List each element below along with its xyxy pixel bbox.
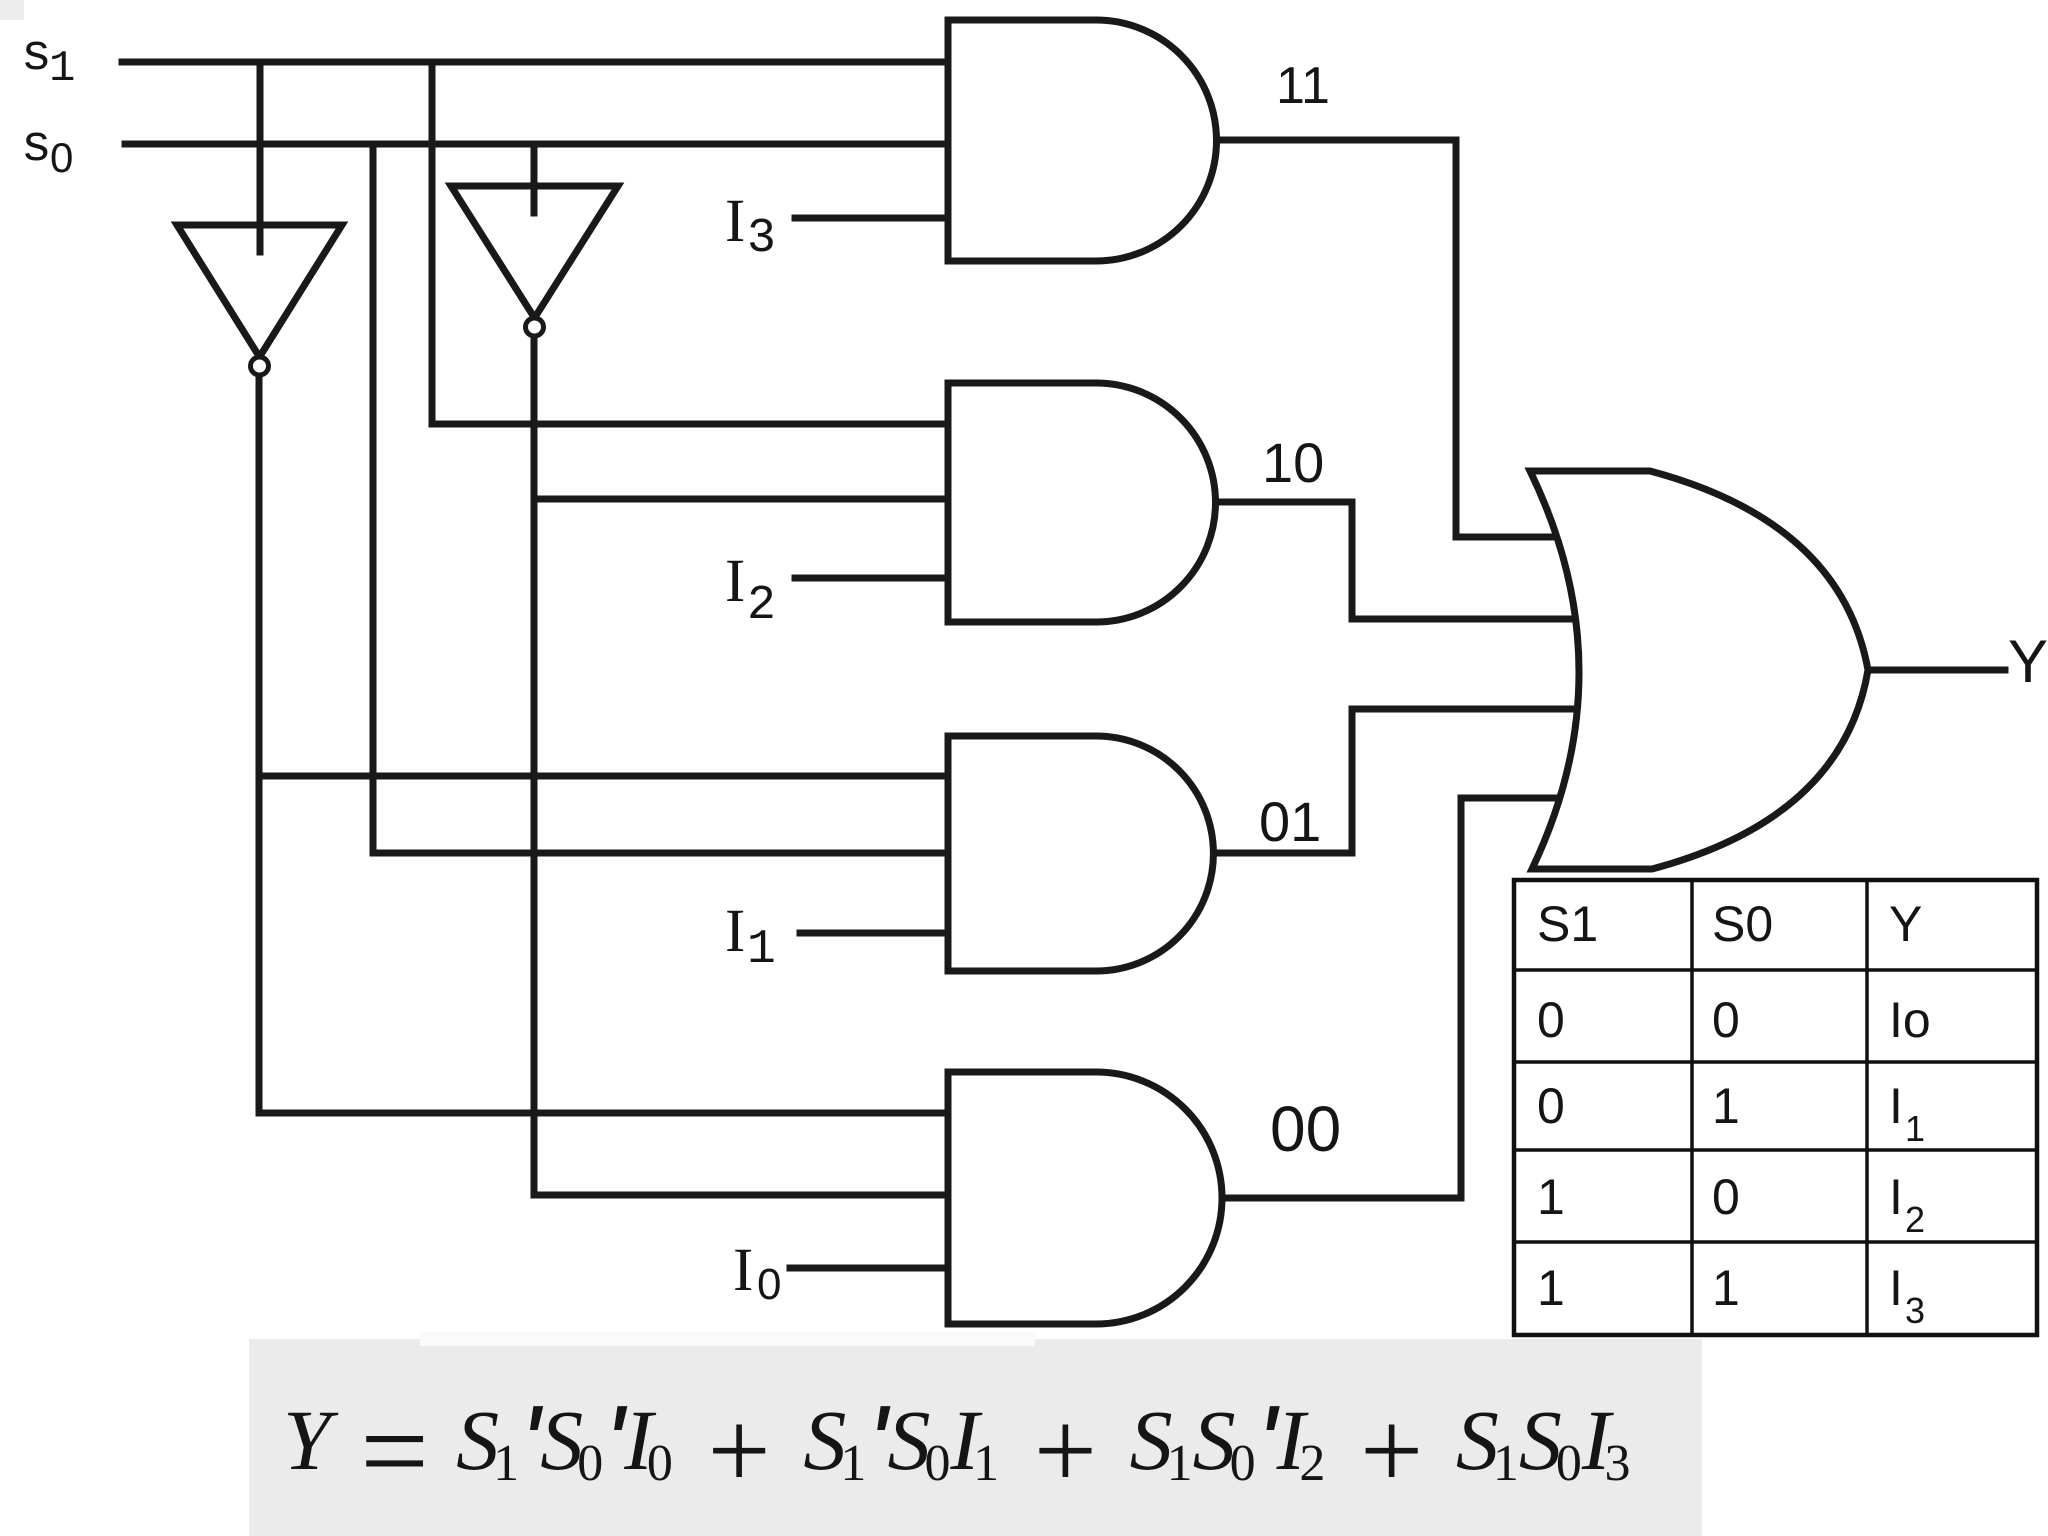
wire input I3 (795, 215, 951, 222)
wire s1 branch to inverter U1 (257, 62, 264, 252)
wire gate G01 output to OR (minterm 01) (1210, 709, 1580, 853)
wire gate G10 output to OR (minterm 10) (1210, 502, 1580, 619)
wire output Y (1868, 667, 2005, 674)
svg-text:I: I (733, 1237, 753, 1304)
equation background block (249, 1339, 1702, 1536)
svg-text:I: I (1889, 1260, 1903, 1316)
wire s0 bus (125, 141, 951, 148)
svg-text:01: 01 (1259, 790, 1321, 853)
svg-text:0: 0 (1712, 1169, 1740, 1225)
svg-text:Y: Y (1889, 896, 1922, 952)
wire net s0' to gate G10 (534, 496, 951, 503)
AND gate G01 (948, 736, 1213, 971)
svg-text:S0: S0 (1712, 896, 1773, 952)
svg-text:I: I (1889, 1169, 1903, 1225)
label s0 (21, 119, 73, 181)
AND gate G00 (948, 1072, 1222, 1324)
inverter U1 (s1 -> s1') (177, 225, 342, 375)
svg-text:1: 1 (747, 923, 776, 977)
svg-text:I: I (1889, 1078, 1903, 1134)
AND gate G10 (948, 383, 1216, 622)
label I0 (733, 1237, 781, 1309)
svg-text:I: I (725, 188, 745, 255)
svg-text:1: 1 (1712, 1078, 1740, 1134)
wire s1 bus (122, 59, 951, 66)
AND gate G11 (948, 20, 1217, 261)
truth table (1514, 880, 2037, 1335)
wire net s0' to gate G00 (534, 1192, 951, 1199)
svg-text:1: 1 (1537, 1169, 1565, 1225)
svg-text:3: 3 (747, 212, 776, 266)
truth table header row S1 S0 Y (1537, 896, 1931, 1331)
svg-text:I: I (725, 898, 745, 965)
svg-text:s: s (21, 119, 52, 176)
svg-text:1: 1 (1537, 1260, 1565, 1316)
svg-text:Io: Io (1889, 992, 1931, 1048)
svg-text:s: s (21, 28, 52, 85)
svg-text:1: 1 (1905, 1108, 1925, 1149)
wire net s1' to gate G00 (259, 1110, 951, 1117)
wire net s1' to gate G01 (259, 773, 951, 780)
wire net s0' vertical from U2 bubble (531, 336, 538, 1195)
svg-text:S1: S1 (1537, 896, 1598, 952)
wire s0 branch to inverter U2 (531, 144, 538, 213)
wire input I1 (800, 930, 951, 937)
wire net s1' vertical from U1 bubble (256, 375, 263, 1113)
svg-text:1: 1 (49, 44, 75, 94)
wire input I2 (795, 575, 951, 582)
svg-text:2: 2 (1905, 1199, 1925, 1240)
svg-text:10: 10 (1262, 431, 1324, 494)
label I2 (725, 548, 776, 633)
svg-text:0: 0 (1537, 1078, 1565, 1134)
inverter U2 (s0 -> s0') (451, 186, 618, 336)
svg-text:0: 0 (757, 1260, 781, 1309)
svg-text:3: 3 (1905, 1290, 1925, 1331)
label s1 (21, 28, 75, 94)
label I3 (725, 188, 776, 266)
svg-text:0: 0 (1537, 992, 1565, 1048)
svg-text:0: 0 (50, 134, 73, 181)
wire s1 branch to gate G10 (432, 62, 951, 424)
wire s0 branch to gate G01 (373, 144, 951, 853)
wire gate G00 output to OR (minterm 00) (1210, 798, 1564, 1198)
wire input I0 (790, 1265, 951, 1272)
wire gate G11 output to OR (minterm 11) (1210, 140, 1562, 537)
svg-text:Y: Y (2008, 628, 2048, 695)
label I1 (725, 898, 776, 977)
svg-text:00: 00 (1270, 1093, 1341, 1165)
svg-text:0: 0 (1712, 992, 1740, 1048)
svg-text:11: 11 (1276, 57, 1330, 115)
svg-text:I: I (725, 548, 745, 615)
svg-text:2: 2 (747, 579, 776, 633)
OR gate U5 (1530, 471, 1868, 869)
svg-text:1: 1 (1712, 1260, 1740, 1316)
